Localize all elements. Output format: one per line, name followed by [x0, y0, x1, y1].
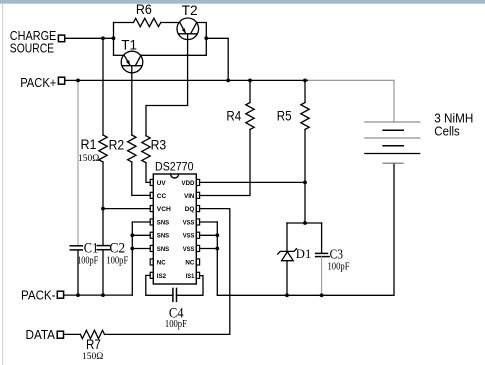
- svg-text:SNS: SNS: [157, 233, 170, 240]
- wire VSS pin 1: [200, 221, 218, 223]
- wire T2 base jog to R3: [146, 34, 188, 136]
- svg-text:VSS: VSS: [183, 246, 195, 253]
- svg-text:VSS: VSS: [183, 233, 195, 240]
- wire R1 to C2 column: [102, 162, 104, 245]
- svg-text:100pF: 100pF: [328, 262, 350, 273]
- svg-text:VDD: VDD: [182, 180, 195, 187]
- wire R5 to D1/C3 bracket: [304, 130, 306, 224]
- junction PACK-/C1: [76, 293, 80, 297]
- svg-text:100pF: 100pF: [106, 256, 128, 267]
- pin labels right: [182, 180, 195, 280]
- svg-text:SNS: SNS: [157, 246, 170, 253]
- svg-text:DATA: DATA: [26, 327, 56, 342]
- junction VSS/D1: [285, 293, 289, 297]
- svg-text:SNS: SNS: [157, 219, 170, 226]
- wire PACK+ rail: [65, 79, 309, 81]
- svg-text:SOURCE: SOURCE: [10, 41, 55, 56]
- wire T1 emitter: [114, 54, 125, 56]
- svg-text:100pF: 100pF: [77, 256, 99, 267]
- svg-text:IS2: IS2: [157, 273, 166, 280]
- svg-text:DQ: DQ: [185, 206, 195, 213]
- junction VSS2: [215, 233, 219, 237]
- wire R6 left bracket vertical: [113, 23, 115, 56]
- junction T2 collector branch: [204, 36, 208, 40]
- wire C3 column: [321, 223, 323, 253]
- wire C2 to PACK-: [102, 250, 104, 295]
- capacitor C3: [316, 253, 330, 256]
- svg-text:PACK-: PACK-: [21, 287, 56, 302]
- resistor R2: [128, 135, 136, 162]
- svg-text:IS1: IS1: [186, 273, 195, 280]
- resistor R7: [80, 330, 104, 338]
- wire C4 to IS1: [177, 276, 204, 296]
- pin labels left: [157, 180, 171, 280]
- wire VSS common column: [216, 222, 218, 295]
- node CHARGE SOURCE terminal: [58, 35, 64, 42]
- junction PACK+/R4: [248, 79, 252, 83]
- wire CHARGE rail: [65, 37, 114, 39]
- svg-text:C2: C2: [109, 240, 125, 256]
- svg-text:UV: UV: [157, 180, 166, 187]
- wire VSS pin 2: [200, 234, 218, 236]
- wire SNS pin 3: [132, 248, 150, 250]
- wire battery positive lead: [393, 80, 395, 122]
- node PACK- terminal: [57, 291, 63, 298]
- node DATA terminal: [57, 331, 63, 338]
- resistor R1: [99, 135, 107, 162]
- svg-text:VSS: VSS: [183, 219, 195, 226]
- svg-text:PACK+: PACK+: [20, 75, 56, 90]
- junction PACK+/C1: [76, 79, 80, 83]
- wire VSS bottom rail to battery: [217, 294, 394, 296]
- wire R6 rail left: [114, 22, 134, 24]
- svg-text:R4: R4: [226, 109, 241, 124]
- wire PACK- rail: [64, 294, 133, 296]
- junction VSS3: [215, 247, 219, 251]
- svg-text:VIN: VIN: [184, 193, 194, 200]
- svg-text:DS2770: DS2770: [155, 162, 194, 174]
- resistor R6: [133, 18, 160, 26]
- wire battery negative lead: [393, 163, 395, 295]
- svg-text:3 NiMH: 3 NiMH: [434, 111, 473, 125]
- wire collector branch to PACK+: [206, 38, 228, 80]
- svg-text:C3: C3: [330, 246, 344, 261]
- junction R5/bracket: [303, 221, 307, 225]
- svg-text:Cells: Cells: [434, 125, 460, 139]
- wire T2 collector: [197, 23, 207, 56]
- svg-text:R2: R2: [109, 137, 125, 152]
- resistor R5: [301, 103, 309, 130]
- wire D1/C3 top bracket: [287, 222, 322, 224]
- svg-text:T1: T1: [121, 37, 137, 52]
- svg-text:D1: D1: [296, 246, 312, 261]
- wire VCH branch: [103, 208, 150, 210]
- wire SNS common column: [131, 222, 133, 295]
- svg-text:T2: T2: [182, 3, 198, 18]
- wire C1 column gray: [77, 80, 79, 245]
- wire VDD to R5: [200, 181, 306, 183]
- capacitor C2: [97, 246, 109, 250]
- wire T1 base to R2: [131, 66, 133, 135]
- wire VSS pin 3: [200, 248, 218, 250]
- wire R6 rail right: [161, 22, 180, 24]
- top page border bar: [0, 0, 485, 4]
- wire R1 column from CHARGE: [102, 38, 104, 135]
- svg-text:R5: R5: [277, 109, 292, 124]
- capacitor C1: [70, 246, 82, 250]
- junction SNS2: [130, 233, 134, 237]
- pin boxes DS2770: [150, 179, 199, 278]
- svg-text:NC: NC: [185, 259, 194, 266]
- junction VDD/R5: [303, 181, 307, 185]
- wire VIN to R4: [200, 130, 251, 196]
- svg-text:R6: R6: [136, 2, 152, 17]
- wire R3 to UV pin: [146, 163, 150, 183]
- svg-text:CC: CC: [157, 193, 166, 200]
- wire SNS pin 2: [132, 234, 150, 236]
- battery 3 NiMH cells: [365, 122, 420, 163]
- junction CHARGE/R1: [101, 36, 105, 40]
- junction PACK+/R5: [303, 79, 307, 83]
- svg-text:150Ω: 150Ω: [78, 154, 99, 164]
- wire IS2 to C4: [146, 275, 173, 295]
- svg-text:100pF: 100pF: [165, 319, 187, 330]
- junction VSS/C3: [320, 293, 324, 297]
- capacitor C4: [173, 288, 177, 301]
- wire DQ to DATA: [105, 209, 230, 335]
- diode D1 zener: [278, 249, 297, 261]
- wire C3 to VSS rail gray: [321, 257, 323, 295]
- junction CHARGE/R6 bracket: [112, 36, 116, 40]
- resistor R4: [246, 103, 254, 130]
- svg-text:R7: R7: [86, 337, 101, 352]
- wire D1 to VSS rail: [286, 261, 288, 296]
- node PACK+ terminal: [58, 77, 64, 84]
- wire R7 to DATA terminal: [64, 333, 81, 335]
- svg-text:R1: R1: [81, 137, 97, 152]
- svg-text:C1: C1: [84, 240, 99, 256]
- junction SNS3: [130, 247, 134, 251]
- svg-text:VCH: VCH: [157, 206, 171, 213]
- wire D1 anode column: [286, 223, 288, 251]
- transistor T2: [177, 18, 199, 40]
- junction R1/VCH: [101, 207, 105, 211]
- resistor R3: [142, 136, 150, 163]
- wire R4 to PACK+: [249, 80, 251, 102]
- junction PACK+/collector branch: [226, 79, 230, 83]
- op-amp U1 DS2770 package body: [153, 174, 196, 284]
- svg-text:150Ω: 150Ω: [82, 352, 103, 362]
- junction PACK-/C2: [101, 293, 105, 297]
- wire PACK+ rail gray segment to battery: [309, 79, 395, 81]
- svg-text:NC: NC: [157, 259, 166, 266]
- wire T1 collector: [141, 54, 206, 56]
- svg-text:R3: R3: [151, 137, 167, 152]
- wire C1 to PACK-: [77, 250, 79, 295]
- wire SNS pin 1: [132, 221, 150, 223]
- transistor T1: [121, 51, 143, 73]
- wire R2 to CC pin: [132, 162, 151, 195]
- wire R5 to PACK+: [304, 80, 306, 102]
